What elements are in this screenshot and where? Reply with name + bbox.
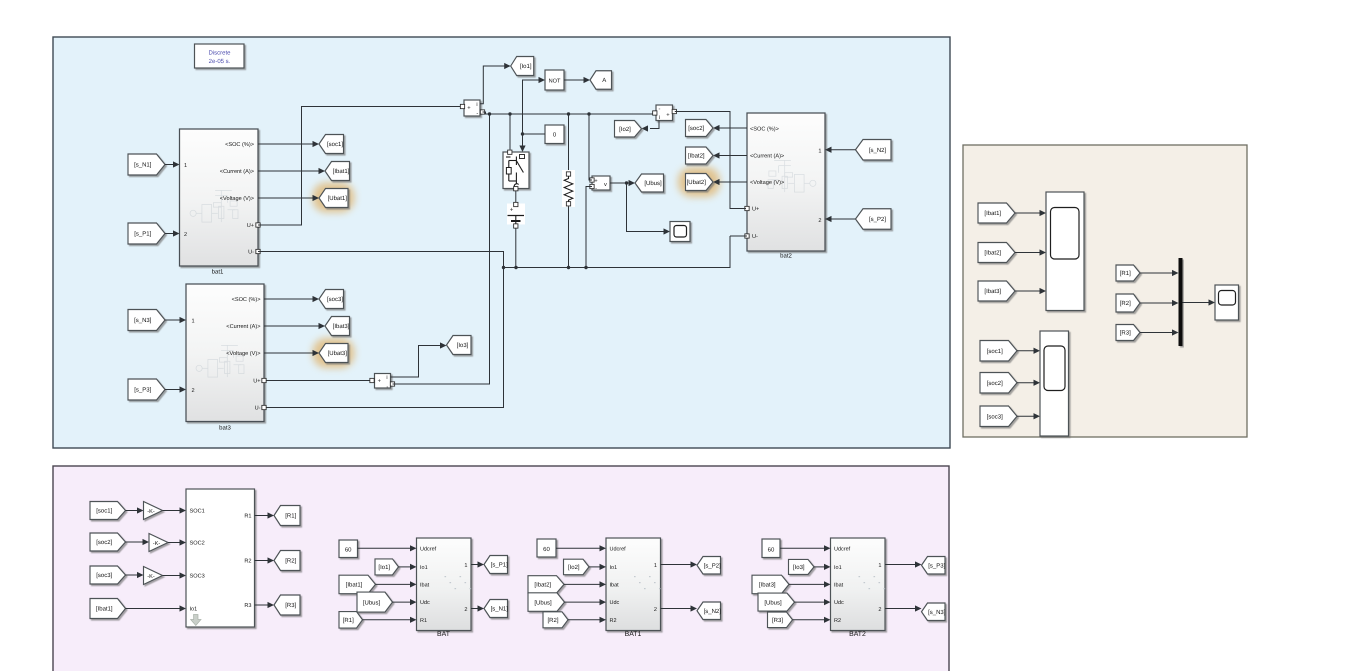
svg-text:<Current (A)>: <Current (A)> bbox=[226, 323, 260, 330]
svg-text:U-: U- bbox=[248, 250, 254, 256]
svg-text:[Io2]: [Io2] bbox=[619, 126, 631, 133]
svg-text:60: 60 bbox=[543, 546, 550, 553]
svg-text:1: 1 bbox=[654, 563, 657, 569]
svg-text:U-: U- bbox=[255, 406, 261, 412]
svg-text:[R3]: [R3] bbox=[285, 602, 296, 609]
svg-text:[s_P1]: [s_P1] bbox=[134, 231, 151, 238]
svg-text:60: 60 bbox=[768, 547, 775, 554]
svg-text:[Ibat1]: [Ibat1] bbox=[333, 168, 350, 175]
svg-text:[soc3]: [soc3] bbox=[327, 296, 343, 303]
svg-text:BAT2: BAT2 bbox=[849, 631, 866, 638]
svg-text:[R1]: [R1] bbox=[343, 617, 354, 624]
svg-text:Io1: Io1 bbox=[190, 607, 198, 613]
svg-text:-: - bbox=[659, 107, 661, 113]
svg-text:R2: R2 bbox=[244, 559, 251, 565]
svg-text:U+: U+ bbox=[752, 207, 759, 213]
svg-text:BAT: BAT bbox=[437, 631, 451, 638]
svg-text:1: 1 bbox=[878, 563, 881, 569]
svg-text:Ibat: Ibat bbox=[610, 583, 620, 589]
svg-text:2: 2 bbox=[818, 218, 821, 224]
svg-text:[R2]: [R2] bbox=[1120, 300, 1131, 307]
svg-text:bat2: bat2 bbox=[780, 253, 792, 260]
svg-text:Io1: Io1 bbox=[420, 565, 428, 571]
svg-text:R1: R1 bbox=[420, 618, 427, 624]
svg-text:i: i bbox=[386, 375, 387, 381]
svg-text:[soc2]: [soc2] bbox=[96, 539, 112, 546]
svg-text:-K-: -K- bbox=[147, 574, 155, 580]
svg-text:[s_N2]: [s_N2] bbox=[704, 608, 722, 615]
svg-text:Io1: Io1 bbox=[834, 565, 842, 571]
svg-text:[soc1]: [soc1] bbox=[96, 508, 112, 515]
svg-text:[s_N1]: [s_N1] bbox=[134, 162, 152, 169]
svg-text:Ibat: Ibat bbox=[834, 583, 844, 589]
svg-text:Io1: Io1 bbox=[610, 565, 618, 571]
svg-text:-K-: -K- bbox=[147, 509, 155, 515]
svg-text:i: i bbox=[659, 115, 660, 121]
svg-text:Discrete: Discrete bbox=[208, 50, 231, 57]
svg-text:U-: U- bbox=[752, 234, 758, 240]
svg-text:[Io3]: [Io3] bbox=[793, 564, 805, 571]
svg-text:Udc: Udc bbox=[610, 600, 620, 606]
svg-text:Ibat: Ibat bbox=[420, 583, 430, 589]
svg-text:[Ibat3]: [Ibat3] bbox=[759, 582, 776, 589]
svg-text:<Current (A)>: <Current (A)> bbox=[220, 168, 254, 175]
svg-text:[Io3]: [Io3] bbox=[457, 342, 469, 349]
svg-text:2: 2 bbox=[184, 232, 187, 238]
svg-text:U+: U+ bbox=[253, 379, 260, 385]
svg-text:[Io2]: [Io2] bbox=[568, 564, 580, 571]
svg-text:[soc3]: [soc3] bbox=[987, 413, 1003, 420]
svg-text:Udcref: Udcref bbox=[610, 546, 627, 552]
svg-text:[Ubat1]: [Ubat1] bbox=[328, 195, 348, 202]
svg-text:1: 1 bbox=[464, 563, 467, 569]
svg-text:2: 2 bbox=[464, 607, 467, 613]
svg-text:-K-: -K- bbox=[153, 541, 161, 547]
svg-text:[R3]: [R3] bbox=[772, 617, 783, 624]
svg-text:Udc: Udc bbox=[420, 600, 430, 606]
svg-text:[Ubus]: [Ubus] bbox=[644, 180, 662, 187]
svg-text:[s_N3]: [s_N3] bbox=[134, 317, 152, 324]
svg-text:<SOC (%)>: <SOC (%)> bbox=[750, 126, 779, 133]
svg-text:[Ubus]: [Ubus] bbox=[534, 599, 552, 606]
svg-text:[Ubus]: [Ubus] bbox=[363, 599, 381, 606]
svg-text:[R3]: [R3] bbox=[1120, 330, 1131, 337]
svg-text:[R1]: [R1] bbox=[285, 513, 296, 520]
svg-text:-: - bbox=[595, 186, 597, 192]
svg-text:v: v bbox=[604, 182, 607, 188]
svg-text:<Voltage (V)>: <Voltage (V)> bbox=[226, 350, 260, 357]
svg-text:+: + bbox=[594, 179, 597, 185]
svg-text:<Voltage (V)>: <Voltage (V)> bbox=[750, 179, 784, 186]
svg-text:[Ubat3]: [Ubat3] bbox=[328, 350, 348, 357]
svg-text:[Ibat3]: [Ibat3] bbox=[984, 288, 1001, 295]
svg-text:[Ibat2]: [Ibat2] bbox=[688, 153, 705, 160]
svg-text:[s_P3]: [s_P3] bbox=[928, 562, 945, 569]
svg-text:SOC3: SOC3 bbox=[190, 574, 205, 580]
svg-text:[Io1]: [Io1] bbox=[520, 63, 532, 70]
svg-text:2: 2 bbox=[192, 388, 195, 394]
svg-text:1: 1 bbox=[818, 149, 821, 155]
svg-text:[Ubus]: [Ubus] bbox=[764, 599, 782, 606]
svg-text:[soc1]: [soc1] bbox=[987, 348, 1003, 355]
svg-text:+: + bbox=[510, 207, 514, 214]
svg-text:[s_N1]: [s_N1] bbox=[491, 606, 509, 613]
svg-text:[Ibat3]: [Ibat3] bbox=[333, 323, 350, 330]
svg-text:[R2]: [R2] bbox=[285, 558, 296, 565]
svg-text:SOC2: SOC2 bbox=[190, 541, 205, 547]
svg-text:SOC1: SOC1 bbox=[190, 509, 205, 515]
svg-text:[soc2]: [soc2] bbox=[688, 125, 704, 132]
svg-text:NOT: NOT bbox=[549, 79, 561, 85]
svg-text:[s_P1]: [s_P1] bbox=[491, 562, 508, 569]
svg-text:BAT1: BAT1 bbox=[625, 631, 642, 638]
svg-text:R1: R1 bbox=[244, 514, 251, 520]
svg-text:1: 1 bbox=[184, 163, 187, 169]
svg-text:Udc: Udc bbox=[834, 600, 844, 606]
svg-text:<Voltage (V)>: <Voltage (V)> bbox=[220, 195, 254, 202]
svg-text:<SOC (%)>: <SOC (%)> bbox=[225, 141, 254, 148]
svg-text:2e-05 s.: 2e-05 s. bbox=[209, 58, 231, 65]
svg-text:<Current (A)>: <Current (A)> bbox=[750, 153, 784, 160]
svg-text:[soc1]: [soc1] bbox=[327, 141, 343, 148]
svg-text:bat1: bat1 bbox=[212, 269, 224, 276]
svg-text:[Ibat1]: [Ibat1] bbox=[96, 606, 113, 613]
svg-text:2: 2 bbox=[878, 607, 881, 613]
svg-text:[soc2]: [soc2] bbox=[987, 380, 1003, 387]
svg-text:R2: R2 bbox=[834, 618, 841, 624]
svg-text:<SOC (%)>: <SOC (%)> bbox=[232, 296, 261, 303]
svg-text:Udcref: Udcref bbox=[834, 546, 851, 552]
svg-text:[Io1]: [Io1] bbox=[378, 564, 390, 571]
svg-text:[R1]: [R1] bbox=[1120, 270, 1131, 277]
svg-text:[s_P3]: [s_P3] bbox=[134, 387, 151, 394]
svg-text:-: - bbox=[386, 385, 388, 391]
svg-text:[s_P2]: [s_P2] bbox=[704, 562, 721, 569]
svg-text:A: A bbox=[602, 77, 606, 84]
svg-text:2: 2 bbox=[654, 607, 657, 613]
svg-text:[R2]: [R2] bbox=[547, 617, 558, 624]
svg-text:[soc3]: [soc3] bbox=[96, 572, 112, 579]
svg-text:U+: U+ bbox=[247, 223, 254, 229]
svg-text:[s_N2]: [s_N2] bbox=[869, 147, 887, 154]
svg-text:[Ibat1]: [Ibat1] bbox=[346, 582, 363, 589]
svg-text:[s_N3]: [s_N3] bbox=[928, 609, 946, 616]
svg-text:[Ibat2]: [Ibat2] bbox=[984, 250, 1001, 257]
svg-text:[Ibat2]: [Ibat2] bbox=[534, 582, 551, 589]
svg-text:60: 60 bbox=[345, 547, 352, 554]
svg-text:R3: R3 bbox=[244, 603, 251, 609]
svg-text:i: i bbox=[476, 102, 477, 108]
svg-text:1: 1 bbox=[192, 319, 195, 325]
svg-text:bat3: bat3 bbox=[219, 425, 231, 432]
svg-text:-: - bbox=[476, 111, 478, 117]
svg-text:R2: R2 bbox=[610, 618, 617, 624]
svg-text:[Ubat2]: [Ubat2] bbox=[687, 179, 707, 186]
svg-text:[s_P2]: [s_P2] bbox=[869, 216, 886, 223]
svg-text:[Ibat1]: [Ibat1] bbox=[984, 210, 1001, 217]
svg-text:Udcref: Udcref bbox=[420, 546, 437, 552]
